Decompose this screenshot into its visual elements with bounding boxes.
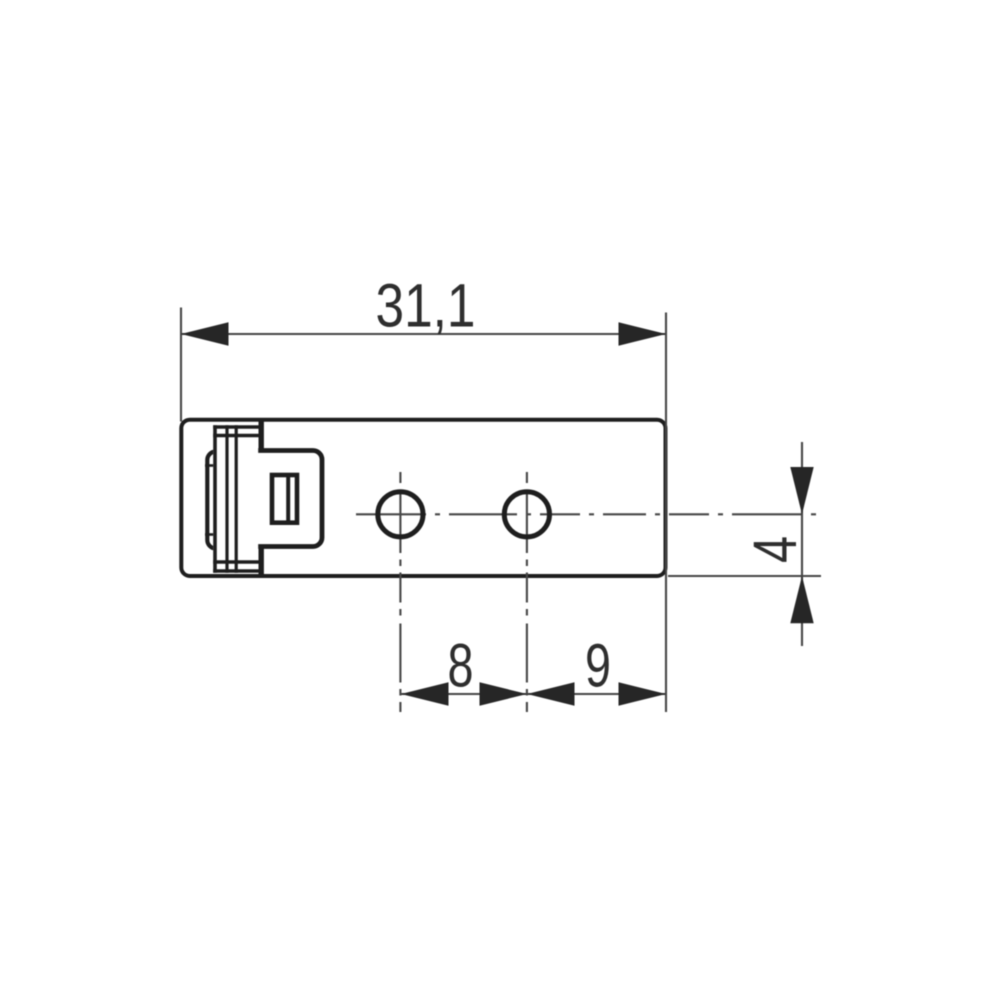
arrowhead 31,1 left — [181, 322, 229, 345]
flange inner vertical line 2 — [235, 425, 238, 573]
flange top edge — [213, 425, 260, 429]
dimension line 31,1 — [181, 333, 666, 335]
clip outline — [258, 451, 322, 547]
arrowhead 8 left — [401, 682, 449, 705]
flange bottom edge — [213, 569, 260, 573]
contact window divider — [286, 473, 290, 525]
contact window outer rect — [272, 475, 297, 523]
clip neck upper (flange right edge top segment) — [259, 418, 264, 452]
flange inner horizontal line top — [213, 434, 260, 437]
arrowhead 9 left — [527, 682, 575, 705]
arrowhead 4 lower (points up) — [790, 576, 813, 623]
flange (tall plate) white fill — [213, 425, 260, 573]
latch clip white fill (covers flange right edge mid-section) — [255, 451, 322, 547]
vertical centerline hole 1 — [399, 472, 401, 712]
vertical centerline hole 2 — [526, 472, 528, 712]
bracket tick lower — [205, 533, 214, 536]
bracket (rear housing sliver, left of flange) — [207, 452, 235, 549]
arrowhead 4 upper (points down) — [790, 467, 813, 514]
extension line bottom of part (for 4) — [668, 575, 821, 577]
clip neck lower (flange right edge bottom segment) — [259, 545, 264, 578]
extension line left (31,1) — [180, 308, 182, 422]
body outline (main rectangle) — [181, 420, 665, 576]
svg-text:31,1: 31,1 — [376, 272, 476, 340]
svg-text:8: 8 — [448, 631, 474, 699]
dimension line 4 (vertical) — [801, 442, 803, 646]
hole 2 circle — [504, 492, 549, 537]
hole 1 circle — [378, 492, 423, 537]
svg-text:4: 4 — [741, 536, 809, 563]
bracket tick upper — [205, 464, 214, 467]
flange left edge — [213, 425, 217, 573]
extension line right (31,1 / 9) — [665, 313, 667, 713]
arrowhead 31,1 right — [619, 322, 667, 345]
svg-text:9: 9 — [585, 631, 611, 699]
horizontal centerline — [356, 513, 821, 515]
flange inner vertical line 1 — [225, 425, 228, 573]
arrowhead 8 right — [480, 682, 528, 705]
dimension line 8 and 9 — [401, 693, 666, 695]
arrowhead 9 right — [619, 682, 667, 705]
flange inner horizontal line bottom — [213, 560, 260, 563]
